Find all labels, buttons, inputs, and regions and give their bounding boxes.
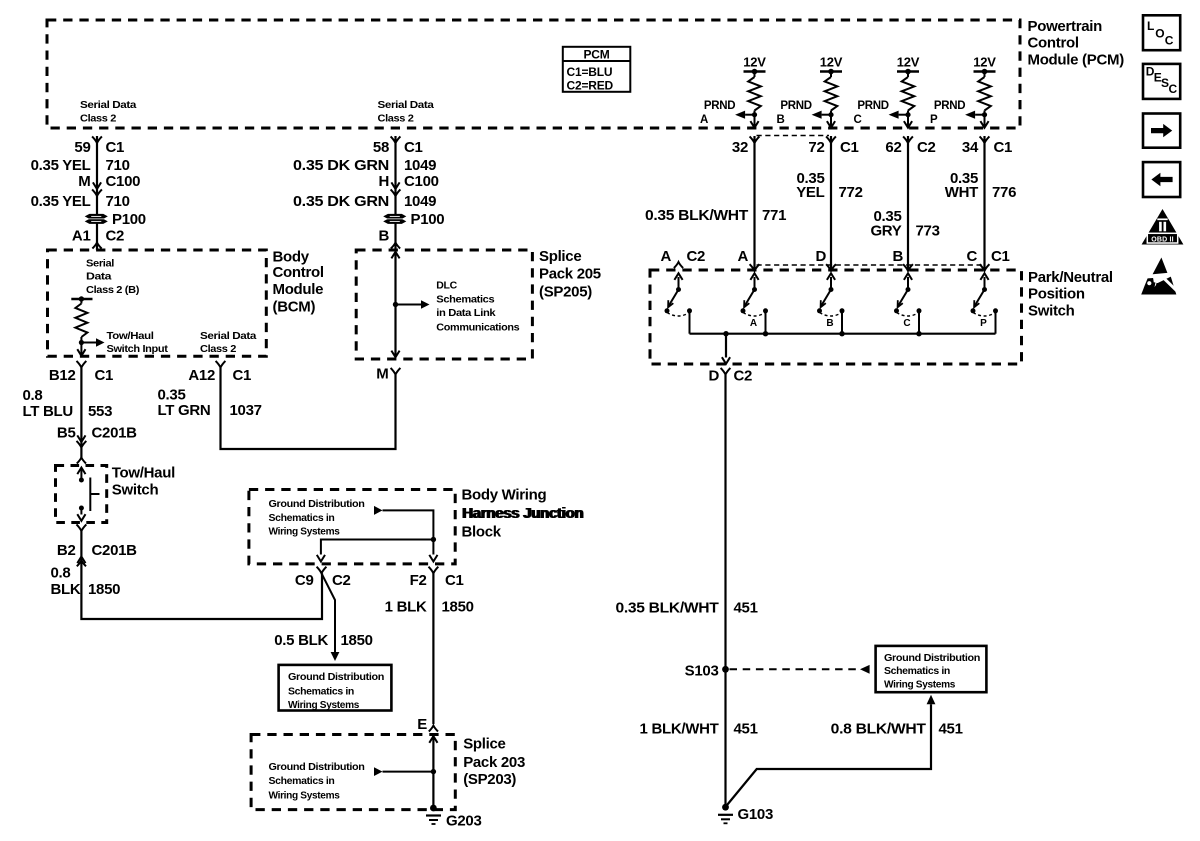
svg-text:B2: B2 [57, 542, 76, 559]
Park/Neutral Position Switch dashed outline [650, 270, 1022, 364]
arrow into PCM edge A [750, 121, 758, 128]
svg-text:1049: 1049 [404, 193, 436, 210]
svg-text:C1: C1 [404, 139, 423, 156]
svg-text:A: A [660, 248, 671, 265]
switch contact set 4 position C [894, 273, 922, 333]
label 1 BLK/WHT 451 [640, 721, 758, 738]
svg-text:C2: C2 [917, 139, 936, 156]
connector C201B inline B2 [77, 557, 86, 567]
wire C9 to ground reference [322, 573, 336, 652]
svg-text:Serial Data: Serial Data [200, 330, 257, 342]
label Splice Pack 203 (SP203) [463, 735, 525, 788]
svg-text:Ground Distribution: Ground Distribution [269, 761, 365, 773]
svg-text:0.5 BLK: 0.5 BLK [274, 632, 328, 649]
label B2 C201B [57, 542, 137, 559]
svg-text:C2: C2 [332, 572, 351, 589]
svg-text:451: 451 [734, 721, 758, 738]
svg-text:L: L [1147, 19, 1154, 33]
svg-text:1850: 1850 [442, 599, 474, 616]
label Ground Distribution Schematics (SP203) [269, 761, 365, 802]
svg-text:C2=RED: C2=RED [567, 79, 614, 93]
svg-text:0.35: 0.35 [158, 386, 186, 403]
svg-text:P: P [930, 114, 938, 126]
PRND wiper arrow A [735, 111, 757, 119]
label pin 62 [885, 139, 935, 156]
svg-text:B12: B12 [49, 367, 76, 384]
svg-text:Splice: Splice [463, 735, 505, 752]
svg-text:0.35 DK GRN: 0.35 DK GRN [293, 157, 389, 174]
svg-text:B: B [892, 248, 903, 265]
label Body Wiring Harness Junction Block [462, 487, 585, 541]
svg-text:Ground Distribution: Ground Distribution [884, 652, 980, 664]
svg-text:B: B [826, 318, 833, 329]
Splice Pack 205 dashed outline [356, 250, 532, 359]
svg-text:0.35 DK GRN: 0.35 DK GRN [293, 193, 389, 210]
arrow into ground distribution box [331, 652, 340, 661]
svg-text:Harness Junction: Harness Junction [463, 505, 584, 522]
svg-text:Data: Data [86, 271, 112, 283]
wire 0.8 LT BLU 553 [80, 368, 82, 459]
Body Control Module dashed outline [48, 250, 267, 356]
svg-text:0.35 YEL: 0.35 YEL [31, 193, 91, 210]
svg-text:GRY: GRY [870, 223, 901, 240]
svg-text:Control: Control [1028, 35, 1079, 52]
svg-text:PRND: PRND [780, 100, 811, 112]
label 0.8 BLK 1850 [51, 565, 121, 598]
arrow BCM B12 internal [77, 349, 85, 356]
12V supply bar resistor B [820, 69, 842, 75]
svg-text:710: 710 [106, 157, 130, 174]
Tow/Haul Switch dashed outline [56, 466, 107, 523]
label Tow/Haul Switch Input [107, 330, 169, 355]
wire PCM pin 32 to switch [753, 136, 755, 270]
svg-text:C100: C100 [404, 173, 439, 190]
svg-text:P100: P100 [112, 211, 146, 228]
svg-text:Pack 205: Pack 205 [539, 266, 601, 283]
svg-text:B: B [777, 114, 785, 126]
svg-text:773: 773 [916, 223, 940, 240]
svg-text:Schematics in: Schematics in [884, 665, 950, 677]
Body Wiring Harness Junction Block dashed outline [249, 490, 455, 564]
svg-text:Pack 203: Pack 203 [463, 754, 525, 771]
svg-text:C2: C2 [687, 248, 706, 265]
switch contact set 3 position B [817, 273, 845, 333]
svg-text:0.35 YEL: 0.35 YEL [31, 157, 91, 174]
wire B2 to ground bus [81, 531, 322, 619]
label 0.5 BLK 1850 [274, 632, 372, 649]
label B5 C201B [57, 425, 137, 442]
PRND wiper arrow C [889, 111, 911, 119]
label pin A1 C2 [72, 228, 124, 245]
label M C100 [78, 173, 140, 190]
wire 1 BLK 1850 to splice pack 203 [432, 573, 434, 724]
label pin A C2 stub [660, 248, 705, 265]
svg-text:1049: 1049 [404, 157, 436, 174]
svg-text:(SP205): (SP205) [539, 283, 592, 300]
resistor PRND pull-up C [902, 72, 915, 128]
svg-text:PCM: PCM [583, 47, 609, 61]
reference icon LOC box [1143, 15, 1180, 50]
svg-text:PRND: PRND [857, 100, 888, 112]
DLC reference arrow [396, 300, 430, 308]
svg-text:Body: Body [273, 248, 310, 265]
svg-text:C9: C9 [295, 572, 314, 589]
svg-text:in Data Link: in Data Link [436, 307, 496, 319]
ground distribution reference arrow SP203 [374, 767, 433, 776]
wire serial data YEL 710 [96, 136, 98, 250]
dashed connector link 32-72 [757, 135, 830, 137]
label pin 59 C1 [74, 139, 124, 156]
connector Y pin 62 [903, 136, 913, 143]
label pin B12 C1 [49, 367, 113, 384]
label pin 32 [732, 139, 748, 156]
svg-text:Schematics in: Schematics in [269, 775, 335, 787]
switch contact set 1 [665, 273, 693, 333]
ground G103 [718, 804, 733, 824]
svg-text:Wiring Systems: Wiring Systems [269, 790, 340, 802]
svg-text:451: 451 [734, 600, 758, 617]
connector pin into SP205 [391, 243, 400, 249]
svg-text:12V: 12V [973, 54, 996, 69]
svg-text:Body Wiring: Body Wiring [462, 487, 547, 504]
svg-text:Ground Distribution: Ground Distribution [288, 671, 384, 683]
label Powertrain Control Module (PCM) [1028, 18, 1125, 69]
connector Y into switch pin D [826, 264, 836, 271]
svg-text:0.35 BLK/WHT: 0.35 BLK/WHT [616, 600, 719, 617]
svg-text:Schematics: Schematics [436, 293, 495, 305]
connector Y into switch pin B [903, 264, 913, 271]
connector Y pin 58 C1 [391, 136, 401, 143]
connector pin into SP203 [429, 726, 438, 732]
label Ground Distribution Schematics (junction block) [269, 498, 365, 538]
wire switch output to pin D [725, 334, 727, 358]
svg-text:Block: Block [462, 523, 502, 540]
svg-text:C: C [854, 114, 862, 126]
svg-text:1850: 1850 [88, 581, 120, 598]
svg-text:Wiring Systems: Wiring Systems [269, 525, 340, 537]
arrow into PCM edge P [980, 121, 988, 128]
svg-text:1037: 1037 [230, 402, 262, 419]
svg-text:Tow/Haul: Tow/Haul [112, 465, 175, 482]
icon ESD warning triangle [1141, 258, 1179, 295]
wire 0.35 BLK/WHT 451 down to S103 [724, 375, 726, 808]
svg-text:0.8: 0.8 [23, 387, 43, 404]
svg-text:(SP203): (SP203) [463, 771, 516, 788]
svg-text:B5: B5 [57, 425, 76, 442]
svg-text:C1: C1 [233, 367, 252, 384]
label 0.35 WHT 776 [945, 170, 1016, 201]
svg-text:C1: C1 [991, 248, 1010, 265]
label H C100 [378, 173, 438, 190]
connector Y pin 59 C1 [92, 136, 102, 143]
svg-text:72: 72 [808, 139, 824, 156]
svg-text:A: A [737, 248, 748, 265]
svg-text:12V: 12V [897, 54, 920, 69]
junction block internal wiring [317, 506, 438, 562]
switch Tow/Haul momentary contacts [77, 468, 99, 521]
label Serial Data Class 2 (mid) [378, 99, 435, 125]
resistor PRND pull-up P [978, 72, 991, 128]
label Park/Neutral Position Switch [1028, 269, 1113, 319]
svg-text:Switch: Switch [112, 481, 159, 498]
label Serial Data Class 2 (BCM) [200, 330, 257, 355]
connector Y pin M [391, 368, 401, 375]
svg-text:553: 553 [88, 403, 112, 420]
wire PCM pin 72 to switch [830, 136, 832, 270]
label 0.35 YEL 710 upper [31, 157, 130, 174]
svg-text:(BCM): (BCM) [273, 298, 316, 315]
label 0.8 BLK/WHT 451 [831, 721, 963, 738]
svg-text:0.8: 0.8 [51, 565, 71, 582]
svg-text:WHT: WHT [945, 184, 978, 201]
svg-text:C100: C100 [106, 173, 141, 190]
svg-text:62: 62 [885, 139, 901, 156]
connector Y into switch pin C [980, 264, 990, 271]
resistor PRND pull-up A [748, 72, 761, 128]
connector pin into BCM [92, 243, 101, 249]
dashed reference wire from S103 [730, 668, 861, 670]
svg-text:Serial Data: Serial Data [80, 99, 137, 111]
wire PCM pin 34 to switch [983, 136, 985, 270]
svg-text:32: 32 [732, 139, 748, 156]
label pin F2 C1 [410, 572, 464, 589]
label Serial Data Class 2 (left) [80, 99, 137, 125]
svg-text:Tow/Haul: Tow/Haul [107, 330, 154, 342]
svg-text:Module: Module [273, 281, 324, 298]
svg-text:F2: F2 [410, 572, 427, 589]
label 1 BLK 1850 [385, 599, 474, 616]
svg-text:Serial Data: Serial Data [378, 99, 435, 111]
connector C201B inline B5 [77, 435, 87, 447]
svg-text:M: M [376, 365, 388, 382]
svg-text:S103: S103 [685, 663, 719, 680]
svg-text:E: E [417, 716, 427, 733]
arrow SP205 bottom [391, 351, 399, 358]
12V supply bar resistor A [744, 69, 766, 75]
svg-text:C2: C2 [734, 368, 753, 385]
connector Y pin 72 [826, 136, 836, 143]
reference icon right arrow box [1143, 114, 1180, 148]
svg-text:Switch Input: Switch Input [107, 343, 169, 355]
node S103 [722, 666, 729, 673]
connector Y pin B12 C1 [77, 361, 87, 368]
svg-text:12V: 12V [743, 54, 766, 69]
svg-text:C2: C2 [106, 228, 125, 245]
icon OBD II triangle [1142, 209, 1184, 245]
svg-text:Control: Control [273, 264, 324, 281]
arrow to ground distribution reference [860, 665, 870, 674]
label pin C9 C2 [295, 572, 351, 589]
svg-text:C1=BLU: C1=BLU [567, 65, 613, 79]
svg-text:1 BLK/WHT: 1 BLK/WHT [640, 721, 719, 738]
svg-text:M: M [78, 173, 90, 190]
connector C100 inline (left) [92, 182, 102, 196]
svg-text:Wiring Systems: Wiring Systems [288, 699, 359, 711]
svg-text:O: O [1155, 27, 1164, 41]
svg-text:H: H [378, 173, 389, 190]
connector Y pin F2 C1 [429, 567, 439, 574]
svg-text:Schematics in: Schematics in [269, 512, 335, 524]
svg-text:DLC: DLC [436, 279, 457, 291]
label 0.35 GRY 773 [870, 208, 939, 240]
reference box Ground Distribution (right) [876, 646, 987, 692]
wire PCM pin 62 to switch [907, 136, 909, 270]
svg-text:C: C [903, 318, 910, 329]
PCM module dashed outline [47, 20, 1020, 128]
svg-text:C1: C1 [994, 139, 1013, 156]
Splice Pack 203 dashed outline [251, 735, 455, 810]
arrow SP203 top [429, 736, 437, 743]
wire 0.8 BLK/WHT 451 to G103 [726, 704, 931, 806]
PRND wiper arrow P [965, 111, 987, 119]
reference icon left arrow box [1143, 162, 1180, 197]
connector pin into Tow/Haul switch [77, 458, 86, 464]
svg-text:772: 772 [839, 184, 863, 201]
connector C100 inline (mid) [391, 182, 401, 196]
connector Y pin D C2 [721, 368, 731, 375]
svg-text:A: A [750, 318, 757, 329]
svg-text:59: 59 [74, 139, 90, 156]
svg-text:C201B: C201B [92, 425, 138, 442]
label 0.35 LT GRN 1037 [158, 386, 262, 419]
svg-text:0.8 BLK/WHT: 0.8 BLK/WHT [831, 721, 926, 738]
svg-text:34: 34 [962, 139, 979, 156]
svg-text:451: 451 [939, 721, 963, 738]
node splice SP205 [393, 302, 398, 307]
svg-text:P: P [980, 318, 987, 329]
label Body Control Module (BCM) [273, 248, 324, 315]
svg-text:C1: C1 [95, 367, 114, 384]
svg-text:776: 776 [992, 184, 1016, 201]
svg-text:12V: 12V [820, 54, 843, 69]
12V supply bar resistor C [897, 69, 919, 75]
svg-text:D: D [708, 368, 719, 385]
arrow switch output at edge [722, 357, 730, 364]
dashed connector link A-D-B-C [757, 264, 985, 266]
svg-text:C: C [1169, 82, 1178, 96]
svg-text:C: C [1165, 34, 1174, 48]
reference box Ground Distribution (left) [279, 665, 392, 711]
label Splice Pack 205 (SP205) [539, 248, 601, 300]
svg-text:LT BLU: LT BLU [23, 403, 73, 420]
arrow SP205 top [391, 252, 399, 259]
svg-text:YEL: YEL [796, 184, 824, 201]
svg-text:Module (PCM): Module (PCM) [1028, 52, 1125, 69]
node splice SP203 [431, 769, 436, 774]
grommet P100 (left) [85, 214, 108, 224]
svg-text:A: A [700, 114, 708, 126]
label 0.35 DK GRN 1049 lower [293, 193, 436, 210]
resistor PRND pull-up B [825, 72, 838, 128]
arrow from reference box down [927, 695, 936, 705]
svg-text:Powertrain: Powertrain [1028, 18, 1103, 35]
svg-text:P100: P100 [411, 211, 445, 228]
label Tow/Haul Switch [112, 465, 175, 499]
svg-text:Wiring Systems: Wiring Systems [884, 679, 955, 691]
label 0.35 YEL 710 lower [31, 193, 130, 210]
label 0.35 BLK/WHT 771 [645, 207, 786, 224]
connector Y pin C9 C2 [317, 567, 327, 574]
PRND wiper arrow B [812, 111, 834, 119]
connector Y pin A12 C1 [216, 361, 226, 368]
svg-text:Serial: Serial [86, 257, 114, 269]
label pin 34 [962, 139, 1012, 156]
label pin D C2 [708, 368, 752, 385]
tow/haul switch input arrow [79, 338, 105, 346]
wire 0.35 LT GRN 1037 [221, 368, 396, 450]
wire splice pack 205 internal [394, 252, 396, 357]
label 0.35 DK GRN 1049 upper [293, 157, 436, 174]
svg-text:C1: C1 [445, 572, 464, 589]
arrow into PCM edge C [904, 121, 912, 128]
connector Y pin 34 [980, 136, 990, 143]
svg-text:BLK: BLK [51, 581, 81, 598]
svg-text:Splice: Splice [539, 248, 581, 265]
grommet P100 (mid) [383, 214, 406, 224]
connector Y into switch pin A [750, 264, 760, 271]
svg-text:OBD II: OBD II [1151, 236, 1174, 243]
svg-text:1 BLK: 1 BLK [385, 599, 427, 616]
svg-text:G103: G103 [738, 806, 774, 823]
svg-text:Class 2 (B): Class 2 (B) [86, 284, 139, 296]
svg-text:1850: 1850 [341, 632, 373, 649]
svg-text:Class 2: Class 2 [80, 113, 117, 125]
label pin 58 C1 [373, 139, 423, 156]
wire serial data DK GRN 1049 [394, 136, 396, 250]
svg-text:A12: A12 [188, 367, 215, 384]
svg-text:Class 2: Class 2 [378, 113, 415, 125]
12V supply bar resistor P [974, 69, 996, 75]
svg-text:58: 58 [373, 139, 389, 156]
svg-text:A1: A1 [72, 228, 91, 245]
svg-text:D: D [815, 248, 826, 265]
svg-text:Position: Position [1028, 285, 1085, 302]
PCM connector legend box [563, 47, 631, 93]
svg-text:C: C [966, 248, 977, 265]
label DLC Schematics in Data Link Communications [436, 279, 520, 333]
svg-text:0.35 BLK/WHT: 0.35 BLK/WHT [645, 207, 748, 224]
svg-text:Communications: Communications [436, 321, 520, 333]
svg-text:PRND: PRND [704, 100, 735, 112]
label Serial Data Class 2 (B) [86, 257, 139, 296]
svg-text:LT GRN: LT GRN [158, 402, 211, 419]
reference icon DESC box [1143, 64, 1180, 99]
svg-text:Park/Neutral: Park/Neutral [1028, 269, 1113, 286]
wire SP203 internal [432, 736, 434, 808]
connector Y pin 32 [750, 136, 760, 143]
connector stub A C2 [674, 262, 683, 268]
label pin 72 [808, 139, 858, 156]
switch contact set 2 position A [741, 273, 769, 333]
label 0.8 LT BLU 553 [23, 387, 113, 420]
label 0.35 BLK/WHT 451 [616, 600, 758, 617]
svg-text:771: 771 [762, 207, 786, 224]
label pin A12 C1 [188, 367, 251, 384]
svg-text:Class 2: Class 2 [200, 343, 237, 355]
switch contact set 5 position P [971, 273, 999, 333]
resistor BCM pull-up [71, 296, 92, 355]
svg-text:C201B: C201B [92, 542, 138, 559]
svg-text:Switch: Switch [1028, 302, 1075, 319]
switch common bus wire [690, 331, 996, 336]
label 0.35 YEL 772 [796, 170, 862, 201]
arrow into PCM edge B [827, 121, 835, 128]
svg-text:PRND: PRND [934, 100, 965, 112]
svg-text:C1: C1 [106, 139, 125, 156]
svg-text:Ground Distribution: Ground Distribution [269, 498, 365, 510]
svg-text:710: 710 [106, 193, 130, 210]
svg-text:Schematics in: Schematics in [288, 685, 354, 697]
